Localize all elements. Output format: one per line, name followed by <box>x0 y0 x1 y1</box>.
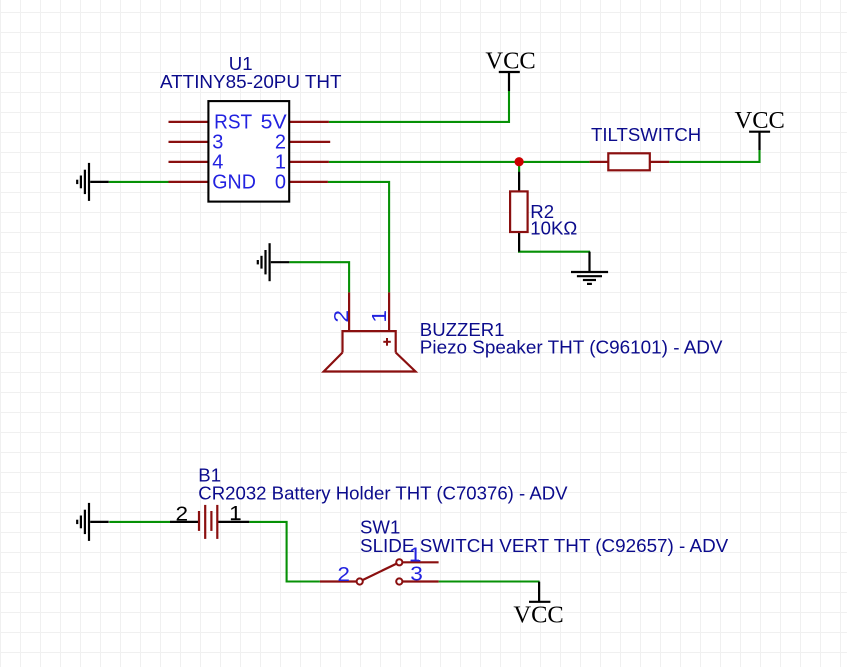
svg-text:VCC: VCC <box>513 602 563 629</box>
svg-text:10KΩ: 10KΩ <box>530 217 577 238</box>
svg-text:5V: 5V <box>261 112 288 134</box>
svg-text:1: 1 <box>229 502 242 525</box>
svg-text:VCC: VCC <box>485 47 535 74</box>
svg-text:TILTSWITCH: TILTSWITCH <box>591 124 701 145</box>
svg-text:1: 1 <box>368 310 391 323</box>
svg-text:Piezo Speaker THT (C96101) - A: Piezo Speaker THT (C96101) - ADV <box>420 337 723 358</box>
svg-text:3: 3 <box>410 563 423 586</box>
svg-text:VCC: VCC <box>735 107 785 134</box>
svg-text:2: 2 <box>337 563 350 586</box>
svg-text:ATTINY85-20PU THT: ATTINY85-20PU THT <box>160 71 342 92</box>
svg-text:2: 2 <box>275 132 286 154</box>
svg-text:CR2032 Battery Holder THT (C70: CR2032 Battery Holder THT (C70376) - ADV <box>198 482 568 503</box>
svg-text:RST: RST <box>214 112 252 134</box>
svg-text:4: 4 <box>212 152 223 174</box>
svg-text:1: 1 <box>275 152 286 174</box>
svg-text:3: 3 <box>212 132 223 154</box>
svg-text:2: 2 <box>330 310 353 323</box>
svg-text:GND: GND <box>212 172 256 194</box>
svg-text:2: 2 <box>176 502 189 525</box>
svg-text:0: 0 <box>275 172 286 194</box>
